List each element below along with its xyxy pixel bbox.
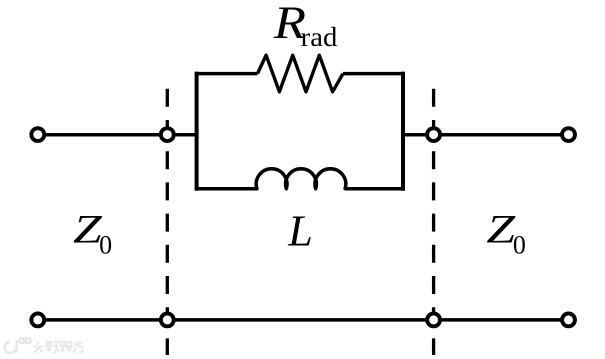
svg-text:0: 0 <box>513 230 526 259</box>
svg-text:rad: rad <box>301 21 338 52</box>
svg-text:Z: Z <box>486 206 516 251</box>
svg-text:L: L <box>287 207 312 256</box>
svg-text:0: 0 <box>99 230 112 259</box>
